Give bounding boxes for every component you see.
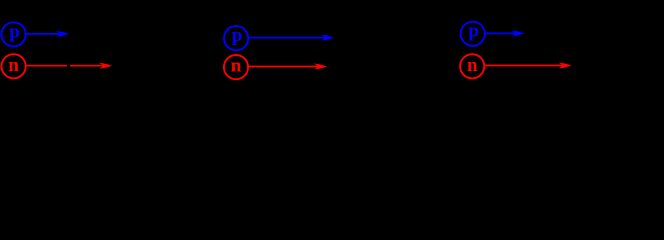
- panel 3: proton momentum arrow (blue): [485, 30, 524, 36]
- panel 1: proton circle: [2, 22, 26, 46]
- svg-text:n: n: [8, 55, 19, 76]
- panel 3: neutron circle: [460, 54, 484, 78]
- panel 2: neutron circle: [224, 55, 248, 79]
- panel 1: neutron momentum arrow (red), with gap where black line crosses: [26, 63, 112, 69]
- svg-text:p: p: [468, 21, 479, 42]
- panel 1: neutron circle: [2, 54, 26, 78]
- panel 2: neutron momentum arrow (red): [248, 64, 327, 70]
- panel 2: proton momentum arrow (blue): [249, 35, 335, 41]
- panel 3: neutron momentum arrow (red): [485, 63, 572, 69]
- panel 3: proton circle: [461, 22, 485, 46]
- panel 1: proton momentum arrow (blue): [26, 31, 69, 37]
- svg-text:n: n: [231, 56, 242, 77]
- panel 2: proton circle: [224, 26, 248, 50]
- svg-text:p: p: [232, 25, 243, 46]
- svg-text:n: n: [467, 55, 478, 76]
- svg-text:p: p: [9, 21, 20, 42]
